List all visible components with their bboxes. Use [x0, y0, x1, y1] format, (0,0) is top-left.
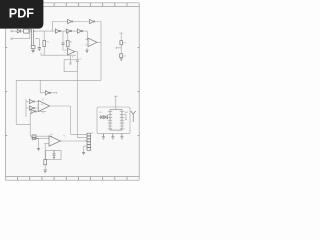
wire	[12, 30, 17, 32]
module A1	[97, 107, 130, 134]
resistor R2	[31, 45, 35, 48]
inverter U4B	[29, 99, 33, 103]
capacitor C5	[53, 150, 56, 157]
wire	[50, 106, 71, 134]
inverter U1C	[55, 29, 59, 33]
resistor R3	[43, 41, 46, 47]
wire loop	[46, 150, 61, 159]
ground	[120, 134, 123, 140]
wire	[39, 138, 50, 140]
op-amp U2	[68, 48, 75, 54]
wire	[12, 29, 29, 39]
svg-text:C2: C2	[65, 41, 67, 43]
inverter U1A	[68, 19, 72, 23]
ground	[111, 134, 114, 140]
wire	[52, 22, 101, 32]
svg-text:R3: R3	[46, 42, 48, 44]
node IN2	[11, 38, 13, 40]
wire	[44, 144, 46, 160]
op-amp U3	[88, 38, 97, 47]
ground	[120, 58, 123, 61]
ground	[85, 48, 88, 52]
op-amp U6	[49, 136, 60, 146]
resistor R6	[32, 135, 36, 138]
wire	[97, 41, 101, 43]
svg-text:U6: U6	[51, 134, 53, 136]
wire	[71, 134, 85, 137]
IC U7	[110, 110, 122, 131]
capacitor C3	[76, 60, 79, 61]
wire	[63, 44, 68, 50]
wire	[40, 92, 57, 94]
resistor R5	[120, 41, 123, 45]
wire	[36, 110, 46, 112]
antenna E1	[131, 111, 136, 122]
wire	[26, 101, 38, 103]
wire	[76, 61, 78, 137]
wire	[30, 135, 52, 137]
op-amp U5	[38, 100, 49, 111]
wire	[44, 143, 49, 145]
wire	[60, 140, 87, 142]
svg-text:U5: U5	[41, 104, 43, 106]
svg-text:R4: R4	[70, 42, 72, 44]
transformer T1	[30, 29, 35, 45]
wire	[42, 98, 44, 113]
diode D3	[101, 115, 104, 119]
svg-text:C4: C4	[123, 56, 125, 58]
wire	[116, 45, 121, 54]
ground	[43, 170, 47, 173]
ground	[31, 49, 34, 53]
wire	[21, 30, 24, 32]
wire	[124, 114, 127, 119]
node IN1	[11, 30, 13, 32]
ground	[37, 148, 40, 150]
wire	[67, 31, 69, 50]
wire	[16, 79, 101, 81]
ground	[82, 152, 85, 154]
inverter U1B	[90, 19, 94, 23]
resistor R1	[24, 29, 29, 33]
wire	[38, 139, 40, 149]
wire	[43, 47, 45, 56]
op-amp U3 input marks	[86, 40, 87, 45]
diode D2	[31, 137, 38, 140]
diode D1	[17, 29, 20, 33]
wire	[44, 165, 46, 170]
wire	[15, 80, 17, 124]
inverter U4C	[29, 106, 33, 110]
inverter U1E	[77, 29, 81, 33]
inverter U1D	[66, 29, 70, 33]
wire	[87, 22, 101, 81]
wire VCC2	[114, 96, 118, 109]
diode D4	[105, 115, 108, 119]
wire	[39, 80, 41, 93]
inverter U4A	[45, 91, 49, 95]
wire	[35, 39, 39, 48]
wire	[26, 107, 38, 109]
wire	[16, 114, 30, 137]
pins U7 right	[122, 112, 124, 129]
resistor R4	[67, 41, 70, 47]
wire	[84, 134, 87, 152]
pins U7 left	[108, 112, 110, 129]
wire	[41, 53, 76, 56]
resistor R7	[44, 160, 47, 165]
svg-text:PDF: PDF	[9, 6, 34, 20]
wire	[52, 30, 87, 32]
IC U7 inner pin marks	[110, 112, 112, 129]
inverter U4D	[31, 109, 35, 113]
PDF badge	[0, 0, 43, 29]
wire	[62, 31, 64, 43]
svg-text:R5: R5	[123, 42, 125, 44]
wire	[75, 52, 78, 60]
capacitor C1	[38, 48, 41, 51]
wire	[69, 56, 71, 65]
ground	[53, 157, 55, 158]
ground	[102, 134, 105, 140]
capacitor C4	[120, 54, 123, 58]
svg-text:C3: C3	[79, 59, 81, 61]
svg-text:J1: J1	[91, 133, 93, 135]
wire	[29, 30, 32, 32]
component X1	[64, 60, 77, 72]
connector J1	[87, 133, 91, 150]
wire VCC1	[119, 33, 123, 41]
wire	[35, 31, 52, 40]
wire	[25, 99, 27, 116]
svg-text:D2: D2	[33, 135, 35, 137]
capacitor C2	[62, 43, 65, 44]
